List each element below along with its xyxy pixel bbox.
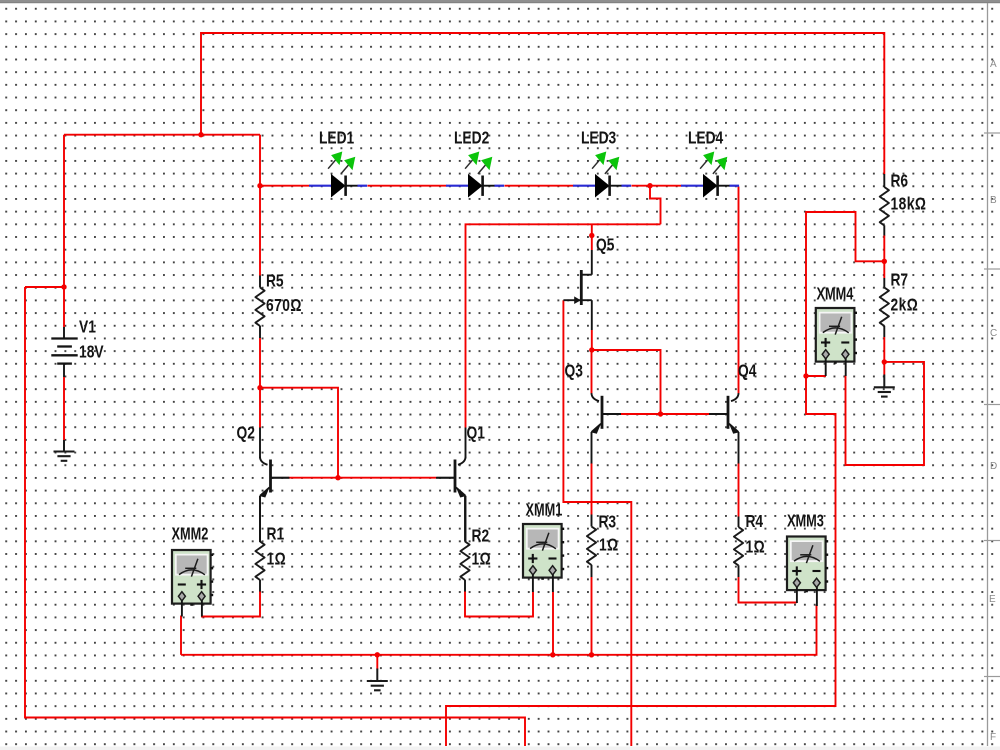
multimeter XMM4 [816, 308, 857, 364]
wire Q5 base long run [563, 300, 631, 746]
junction Q5 stub [589, 233, 594, 238]
junction LED row start [257, 183, 262, 188]
multimeter XMM2 [172, 550, 213, 606]
svg-text:1Ω: 1Ω [267, 550, 287, 569]
svg-text:V1: V1 [79, 318, 96, 337]
wire base rail Q2-Q1 [288, 477, 437, 479]
transistor Q5 arrow [574, 296, 581, 304]
wire Q3 collector node to Q3-Q4 base rail [592, 350, 661, 414]
XMM4 terminal leads [826, 359, 846, 377]
wire node A drop to LED row [259, 135, 261, 186]
wire left rail to battery node [25, 286, 64, 288]
junction Q3 collector node [589, 347, 594, 352]
svg-text:LED1: LED1 [319, 129, 354, 148]
junction base rail Q1-Q2 [335, 475, 340, 480]
transistor Q2 emitter lead [259, 496, 261, 542]
junction R7 ground node [882, 359, 887, 364]
XMM1 plus sign [528, 554, 537, 563]
wire V1+ vertical x=64 [63, 135, 65, 327]
wire left rail vertical x=25 [25, 287, 525, 746]
wire stub to Q5 [591, 224, 593, 250]
svg-text:Q3: Q3 [565, 362, 584, 381]
svg-text:LED3: LED3 [581, 129, 616, 148]
svg-text:XMM2: XMM2 [172, 525, 209, 544]
wire R2 bottom to XMM1 plus [465, 591, 533, 617]
transistor Q4 base pin [710, 413, 729, 415]
svg-text:C: C [990, 328, 997, 339]
transistor Q1 [436, 457, 466, 498]
sheet border line right [987, 3, 989, 746]
border tick y=677 [984, 676, 1000, 678]
ground at bus [376, 669, 378, 682]
ground under R7 [883, 375, 885, 388]
svg-text:18kΩ: 18kΩ [890, 195, 926, 214]
svg-text:R3: R3 [598, 513, 616, 532]
transistor Q2 collector lead [259, 428, 261, 459]
transistor Q3 base pin [602, 413, 621, 415]
svg-text:1Ω: 1Ω [599, 536, 619, 555]
LED4 [681, 152, 739, 198]
svg-text:R1: R1 [267, 525, 285, 544]
wire Q5 emitter to Q3 collector [591, 330, 593, 350]
svg-text:A: A [990, 59, 997, 70]
svg-text:B: B [990, 195, 997, 206]
svg-text:1Ω: 1Ω [745, 538, 765, 557]
wire R6-R7 node to XMM4 plus loop [446, 212, 884, 746]
top gray toolbar edge [0, 0, 1000, 2]
battery V1 [51, 327, 77, 377]
svg-text:LED4: LED4 [688, 129, 723, 148]
junction top rail x=201 [198, 132, 203, 137]
wire XMM1 minus to ground bus [552, 592, 554, 655]
wire R3 bottom to ground bus [591, 577, 593, 655]
transistor Q3 emitter lead [591, 432, 593, 464]
resistor R5 [259, 276, 261, 339]
junction ground bus R3 [589, 652, 594, 657]
junction LED3-LED4 node [647, 183, 652, 188]
svg-text:LED2: LED2 [454, 129, 489, 148]
XMM4 minus sign [841, 342, 849, 344]
wire net to Q1 collector [466, 224, 661, 427]
wire battery minus to ground [63, 377, 65, 440]
wire R7 top [883, 261, 885, 278]
bottom pale strip [0, 747, 1000, 750]
XMM3 minus sign [813, 570, 821, 572]
XMM1 terminal leads [533, 575, 553, 593]
svg-text:18V: 18V [79, 343, 104, 362]
wire LED4 to Q4 collector [738, 187, 740, 394]
junction XMM4 plus node [803, 373, 808, 378]
junction R6-R7 node [882, 259, 887, 264]
svg-text:Q2: Q2 [237, 424, 256, 443]
wire XMM3 minus to ground bus [181, 605, 817, 655]
wire Q3 emitter to R3 [591, 463, 593, 515]
svg-text:D: D [990, 461, 997, 472]
wire XMM2 plus to R1 bottom [201, 591, 260, 617]
LED3 [573, 152, 631, 198]
wire XMM4 minus loop [846, 362, 925, 465]
svg-text:E: E [989, 594, 996, 605]
svg-text:Q4: Q4 [738, 362, 757, 381]
XMM4 plus sign [821, 338, 830, 347]
wire top rail horizontal [201, 33, 884, 174]
transistor Q4 [709, 393, 739, 434]
wire XMM4 plus stub [806, 375, 826, 377]
wire R6 bottom junction [883, 235, 885, 261]
XMM3 plus sign [792, 566, 801, 575]
wire LED3-LED4 node drop [650, 186, 661, 225]
XMM3 terminal leads [797, 587, 817, 606]
ground under battery [63, 440, 65, 452]
junction ground bus at ground [375, 652, 380, 657]
transistor Q1 emitter lead [465, 496, 467, 542]
svg-text:F: F [990, 732, 996, 743]
junction Q2 collector node [257, 385, 262, 390]
wire R7 bottom to ground node [883, 337, 885, 375]
svg-text:R4: R4 [745, 513, 763, 532]
transistor Q2 base pin [271, 477, 289, 479]
svg-text:Q1: Q1 [467, 424, 486, 443]
svg-text:2kΩ: 2kΩ [890, 296, 918, 315]
resistor R4 [738, 517, 740, 578]
resistor R3 [591, 515, 593, 578]
wire Q2 collector node to base rail [260, 388, 338, 478]
multimeter XMM1 [523, 524, 564, 580]
resistor R1 [259, 496, 261, 592]
svg-text:XMM1: XMM1 [525, 501, 562, 520]
transistor Q5 [563, 250, 591, 330]
svg-text:R5: R5 [266, 272, 284, 291]
svg-text:R2: R2 [472, 527, 490, 546]
wire LED row segment 4 [632, 185, 682, 187]
transistor Q1 base pin [437, 477, 455, 479]
resistor R7 [883, 278, 885, 337]
junction battery plus [61, 284, 66, 289]
wire ground bus stub [376, 655, 378, 670]
svg-text:1Ω: 1Ω [472, 550, 492, 569]
wire LED row segment 3 [505, 185, 574, 187]
XMM2 terminal leads [182, 601, 202, 617]
transistor Q1 collector lead [465, 428, 467, 459]
border tick y=404 [984, 404, 1000, 406]
wire R4 bottom to XMM3 plus [739, 577, 797, 603]
transistor Q2 [260, 457, 290, 498]
wire R5 bottom to Q2 collector [259, 338, 261, 428]
border tick y=541 [984, 540, 1000, 542]
wire base rail Q3-Q4 [620, 413, 710, 415]
LED2 [446, 152, 504, 198]
wire V1+ rail horizontal y=134.7 [64, 134, 260, 136]
wire LED row segment 1 [260, 185, 310, 187]
multimeter XMM3 [787, 537, 828, 593]
wire R5 top from LED node [259, 186, 261, 276]
svg-text:670Ω: 670Ω [266, 296, 302, 315]
wire Q4 emitter to R4 [738, 463, 740, 517]
svg-text:XMM3: XMM3 [787, 511, 824, 530]
XMM2 minus sign [178, 584, 186, 586]
svg-text:R7: R7 [890, 271, 908, 290]
junction ground bus XMM1 [550, 652, 555, 657]
svg-text:XMM4: XMM4 [817, 285, 854, 304]
transistor Q3 [592, 393, 622, 434]
resistor R2 [464, 496, 466, 592]
LED1 [309, 152, 367, 198]
XMM2 plus sign [197, 580, 206, 589]
svg-text:R6: R6 [890, 172, 908, 191]
wire LED row segment 2 [368, 185, 447, 187]
junction base rail Q3-Q4 [658, 411, 663, 416]
XMM1 minus sign [549, 558, 557, 560]
border tick y=133 [984, 132, 1000, 134]
border tick y=269 [984, 268, 1000, 270]
wire XMM2 minus drop [180, 616, 182, 655]
resistor R6 [883, 174, 885, 236]
svg-text:Q5: Q5 [596, 236, 615, 255]
transistor Q4 emitter lead [738, 432, 740, 464]
